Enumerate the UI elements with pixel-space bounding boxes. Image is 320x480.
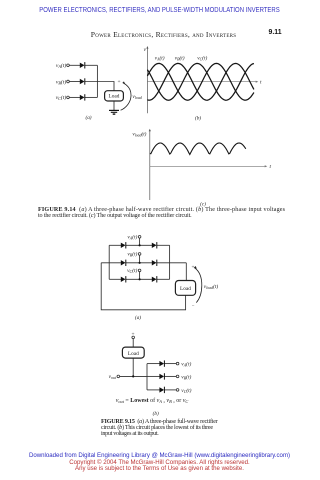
diode D11 (159, 373, 165, 379)
svg-text:t: t (270, 164, 272, 170)
wire load to ground (113, 101, 115, 110)
vload arc arrow 2 (194, 266, 202, 303)
wire phase B (69, 81, 80, 83)
svg-text:(a): (a) (135, 314, 141, 321)
sine phase B (147, 63, 254, 100)
svg-text:Load: Load (180, 286, 191, 292)
rail B wire full (101, 262, 121, 264)
rail A mid wire (126, 244, 152, 246)
terminal C2 (138, 269, 141, 272)
v axis (146, 46, 148, 113)
stub C (139, 272, 141, 280)
branch C diode wire (165, 389, 177, 391)
sine phase C (147, 63, 254, 100)
sine phase A (147, 63, 254, 100)
terminal vout (117, 375, 120, 378)
diode bridge D6 (121, 260, 127, 266)
diode bridge D9 (152, 276, 158, 282)
page number 9.11 (269, 29, 282, 36)
diode bridge D8 (121, 276, 127, 282)
left bus (108, 245, 110, 279)
node B terminal (67, 80, 70, 83)
svg-text:vC(t): vC(t) (127, 267, 137, 274)
wire right bus to load top (185, 263, 187, 281)
svg-text:vload(t): vload(t) (132, 130, 146, 137)
rectified output wave (150, 143, 246, 155)
running head (88, 30, 239, 39)
load box U3 (122, 347, 144, 358)
svg-text:vload: vload (132, 94, 141, 100)
branch B diode wire (165, 375, 177, 377)
svg-text:vA(t): vA(t) (155, 55, 165, 62)
stub B (139, 255, 141, 262)
junction dot C (139, 278, 141, 280)
branch B wire (147, 375, 160, 377)
svg-text:(c): (c) (200, 201, 206, 208)
svg-text:vB(t): vB(t) (56, 78, 66, 85)
junction dot A (139, 244, 141, 246)
outer return loop (101, 263, 185, 310)
FIGURE 9.15 caption (101, 419, 231, 437)
node C terminal (67, 96, 70, 99)
stub A (139, 238, 141, 245)
vload arc arrow (121, 81, 131, 110)
svg-text:vout = Lowest of vA , vB , or: vout = Lowest of vA , vB , or vC (116, 397, 189, 404)
footer line 2 (0, 459, 319, 466)
svg-text:vB(t): vB(t) (181, 373, 191, 380)
terminal A3 (176, 362, 179, 365)
svg-text:+: + (118, 79, 121, 85)
svg-text:vA(t): vA(t) (181, 361, 191, 368)
load box U2 (175, 281, 195, 296)
svg-text:vA(t): vA(t) (56, 62, 66, 69)
diode D10 (159, 360, 165, 366)
footer line 1 (0, 452, 319, 459)
diode bridge D4 (121, 242, 127, 248)
wire load to node (132, 358, 134, 376)
v axis c (149, 129, 151, 200)
svg-text:vB(t): vB(t) (127, 251, 137, 258)
diode D3 (80, 94, 86, 100)
rail B mid wire (126, 262, 152, 264)
wire top to load (132, 339, 134, 347)
svg-text:(b): (b) (153, 410, 159, 417)
branch A wire (147, 363, 160, 365)
wire phase C (69, 96, 80, 98)
load box U1 (105, 91, 124, 101)
svg-text:−: − (192, 304, 195, 309)
branch A diode wire (165, 363, 177, 365)
footer line 3 (0, 465, 319, 472)
FIGURE 9.14 caption (38, 207, 298, 220)
diode D2 (80, 78, 86, 84)
junction dot out (132, 375, 134, 377)
right bus (169, 245, 171, 279)
rail B right wire (157, 262, 186, 264)
rail C wire (109, 278, 121, 280)
node A terminal (67, 64, 70, 67)
svg-text:vload(t): vload(t) (204, 283, 219, 290)
terminal C3 (176, 389, 179, 392)
svg-text:vB(t): vB(t) (175, 55, 185, 62)
svg-text:(b): (b) (195, 115, 201, 122)
wire phase A (69, 64, 80, 66)
svg-text:vA(t): vA(t) (127, 234, 137, 241)
svg-text:vC(t): vC(t) (56, 94, 67, 101)
wire vout node (120, 375, 147, 377)
ground (109, 110, 119, 114)
diode bridge D7 (152, 260, 158, 266)
terminal A2 (138, 236, 141, 239)
wire C diode to bus (85, 96, 97, 98)
terminal B3 (176, 375, 179, 378)
svg-text:(a): (a) (85, 114, 91, 121)
branch C wire (147, 389, 160, 391)
rail C right wire (157, 278, 170, 280)
diode D1 (80, 62, 86, 68)
svg-text:vout: vout (109, 374, 117, 380)
terminal B2 (138, 253, 141, 256)
diode D12 (159, 387, 165, 393)
rail A wire (109, 244, 121, 246)
junction dot B (139, 262, 141, 264)
svg-text:t: t (260, 80, 262, 86)
wire bus vertical (96, 65, 98, 97)
svg-text:+: + (192, 264, 195, 270)
bus 2 (146, 364, 148, 390)
rail A right wire (157, 244, 170, 246)
svg-text:vC(t): vC(t) (181, 387, 191, 394)
top banner title (27, 5, 292, 14)
t axis c (150, 165, 267, 167)
svg-text:Load: Load (128, 351, 139, 357)
t axis (147, 81, 258, 83)
terminal top (132, 336, 135, 339)
diode bridge D5 (152, 242, 158, 248)
wire A diode to bus (85, 64, 97, 66)
rail C mid wire (126, 278, 152, 280)
svg-text:vC(t): vC(t) (197, 55, 207, 62)
wire B diode to corner and down to load (85, 82, 114, 91)
svg-text:v: v (144, 47, 147, 53)
svg-text:Load: Load (108, 94, 119, 100)
